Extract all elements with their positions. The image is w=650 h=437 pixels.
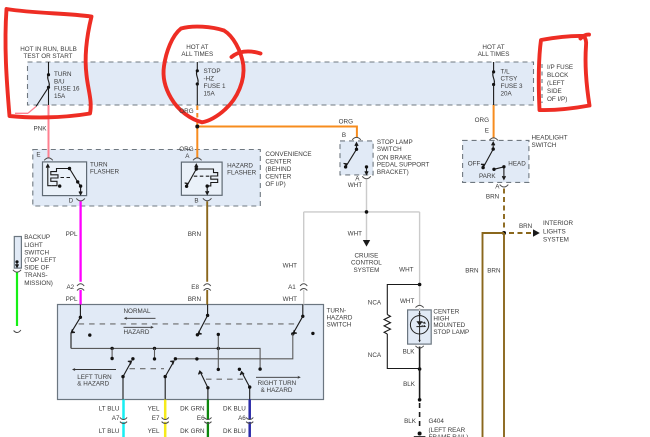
svg-text:E7: E7 [152, 415, 160, 422]
svg-text:BRN: BRN [465, 267, 479, 274]
svg-text:ALL TIMES: ALL TIMES [478, 51, 510, 58]
svg-text:G404: G404 [429, 418, 445, 425]
svg-text:OFF: OFF [468, 161, 481, 168]
svg-text:BRACKET): BRACKET) [377, 169, 409, 176]
svg-text:ORG: ORG [179, 108, 193, 115]
svg-text:BRN: BRN [188, 296, 202, 303]
svg-text:& HAZARD: & HAZARD [77, 381, 109, 388]
svg-text:RIGHT TURN: RIGHT TURN [258, 380, 297, 387]
svg-text:SWITCH: SWITCH [377, 146, 402, 153]
svg-text:DK BLU: DK BLU [223, 406, 246, 413]
svg-text:ORG: ORG [339, 119, 353, 126]
svg-text:WHT: WHT [283, 296, 297, 303]
svg-text:E8: E8 [191, 284, 199, 291]
svg-text:HAZARD: HAZARD [327, 315, 353, 322]
svg-text:HEAD: HEAD [508, 160, 526, 167]
svg-text:A2: A2 [66, 284, 74, 291]
svg-text:BACKUP: BACKUP [24, 234, 50, 241]
svg-text:(LEFT: (LEFT [547, 80, 565, 87]
svg-text:E6: E6 [197, 415, 205, 422]
svg-text:SWITCH: SWITCH [24, 250, 49, 257]
svg-text:NCA: NCA [368, 300, 382, 307]
svg-text:MISSION): MISSION) [24, 280, 53, 287]
svg-text:DK BLU: DK BLU [223, 428, 246, 435]
svg-text:SIDE OF: SIDE OF [24, 265, 49, 272]
svg-text:HOT AT: HOT AT [482, 44, 504, 51]
svg-text:BRN: BRN [519, 223, 533, 230]
svg-text:TURN-: TURN- [327, 308, 347, 315]
svg-text:15A: 15A [204, 90, 216, 97]
svg-text:WHT: WHT [283, 263, 297, 270]
svg-text:OF I/P): OF I/P) [265, 181, 285, 188]
svg-text:LIGHTS: LIGHTS [543, 228, 566, 235]
svg-text:STOP: STOP [204, 68, 221, 75]
svg-text:LT BLU: LT BLU [99, 428, 120, 435]
svg-text:FUSE 3: FUSE 3 [501, 83, 524, 90]
svg-text:LIGHT: LIGHT [24, 242, 43, 249]
svg-text:CONVENIENCE: CONVENIENCE [265, 151, 311, 158]
svg-text:TEST OR START: TEST OR START [24, 53, 73, 60]
svg-text:FUSE 1: FUSE 1 [204, 83, 227, 90]
svg-text:CENTER: CENTER [265, 174, 291, 181]
svg-text:PPL: PPL [66, 231, 78, 238]
svg-text:PPL: PPL [66, 296, 78, 303]
svg-text:PEDAL SUPPORT: PEDAL SUPPORT [377, 162, 430, 169]
svg-text:BRN: BRN [188, 231, 202, 238]
svg-text:STOP LAMP: STOP LAMP [433, 329, 469, 336]
svg-text:BRN: BRN [486, 194, 500, 201]
svg-text:INTERIOR: INTERIOR [543, 220, 574, 227]
svg-text:CTSY: CTSY [501, 76, 519, 83]
svg-text:FUSE 16: FUSE 16 [54, 86, 80, 93]
svg-text:20A: 20A [501, 91, 513, 98]
svg-text:MOUNTED: MOUNTED [433, 322, 465, 329]
svg-text:E: E [485, 128, 489, 135]
svg-text:(TOP LEFT: (TOP LEFT [24, 257, 56, 264]
svg-text:DK GRN: DK GRN [180, 428, 205, 435]
svg-text:BLOCK: BLOCK [547, 72, 569, 79]
svg-text:OF I/P): OF I/P) [547, 96, 567, 103]
svg-text:& HAZARD: & HAZARD [261, 387, 293, 394]
svg-text:A1: A1 [288, 284, 296, 291]
svg-text:WHT: WHT [399, 267, 413, 274]
svg-text:D: D [69, 198, 74, 205]
svg-text:CRUISE: CRUISE [355, 253, 379, 260]
svg-text:DK GRN: DK GRN [180, 406, 205, 413]
svg-text:CENTER: CENTER [265, 159, 291, 166]
svg-text:(BEHIND: (BEHIND [265, 166, 291, 173]
svg-text:YEL: YEL [148, 406, 160, 413]
svg-text:E: E [36, 152, 40, 159]
svg-text:NCA: NCA [368, 352, 382, 359]
svg-text:T/L: T/L [501, 68, 511, 75]
svg-text:WHT: WHT [348, 231, 362, 238]
svg-text:NORMAL: NORMAL [124, 308, 151, 315]
svg-text:CONTROL: CONTROL [351, 260, 382, 267]
svg-text:-HZ: -HZ [204, 76, 215, 83]
svg-text:ALL TIMES: ALL TIMES [181, 51, 213, 58]
svg-text:HAZARD: HAZARD [227, 163, 253, 170]
svg-text:HOT IN RUN, BULB: HOT IN RUN, BULB [20, 46, 77, 53]
svg-text:SYSTEM: SYSTEM [353, 267, 379, 274]
svg-text:BLK: BLK [404, 418, 417, 425]
svg-text:TURN: TURN [54, 71, 72, 78]
svg-text:FLASHER: FLASHER [227, 170, 256, 177]
svg-text:(ON BRAKE: (ON BRAKE [377, 155, 412, 162]
svg-text:B: B [342, 132, 346, 139]
svg-text:FLASHER: FLASHER [90, 168, 119, 175]
svg-text:CENTER: CENTER [433, 308, 459, 315]
svg-text:SIDE: SIDE [547, 88, 562, 95]
svg-text:SWITCH: SWITCH [327, 322, 352, 329]
svg-text:WHT: WHT [400, 298, 414, 305]
svg-text:I/P FUSE: I/P FUSE [547, 64, 573, 71]
svg-text:PNK: PNK [34, 126, 48, 133]
svg-text:B: B [194, 198, 198, 205]
svg-text:B/U: B/U [54, 78, 65, 85]
svg-text:SYSTEM: SYSTEM [543, 237, 569, 244]
svg-text:WHT: WHT [348, 182, 362, 189]
svg-text:HEADLIGHT: HEADLIGHT [532, 135, 568, 142]
svg-text:A7: A7 [112, 415, 120, 422]
svg-text:A6: A6 [238, 415, 246, 422]
svg-text:BLK: BLK [403, 381, 416, 388]
svg-text:ORG: ORG [475, 117, 489, 124]
svg-text:PARK: PARK [479, 173, 496, 180]
svg-text:BRN: BRN [487, 267, 501, 274]
svg-text:HOT AT: HOT AT [186, 44, 208, 51]
svg-text:YEL: YEL [148, 428, 160, 435]
svg-text:BLK: BLK [403, 349, 416, 356]
svg-text:HAZARD: HAZARD [124, 329, 150, 336]
svg-text:SWITCH: SWITCH [532, 142, 557, 149]
svg-text:15A: 15A [54, 93, 66, 100]
svg-text:LT BLU: LT BLU [99, 406, 120, 413]
svg-text:TRANS-: TRANS- [24, 272, 47, 279]
